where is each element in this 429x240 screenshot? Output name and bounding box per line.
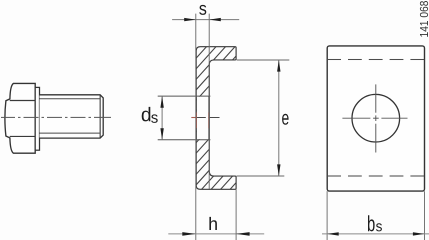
dimension s: right arrow [209,18,221,21]
hole centerline [191,117,205,119]
plate outline [327,46,424,191]
dimension b_s: dimension line [322,233,429,235]
dimension h: left arrow (outside) [182,232,196,236]
red center mark vertical left [195,112,197,128]
dimension e: dimension line [278,60,280,176]
thread minor diameter line (top) [40,98,101,100]
threaded hole bottom edge + extension [158,139,211,141]
hole band (unhatched) [197,97,209,140]
dimension e: extension lines [237,59,290,61]
washer face collar [35,87,39,150]
hatching [40,30,383,200]
dimension b_s: right arrow [413,232,425,235]
label d_s [142,107,151,122]
dimension h: right extension line [235,189,237,240]
dimension h: dimension line [168,233,264,235]
head facet line (upper) [10,100,36,102]
dimension b_s: left arrow [327,232,339,235]
head facet line (lower) [10,135,36,137]
dimension s: left arrow [184,18,196,21]
dimension d_s: dimension line with arrows [161,96,163,140]
hole circle [352,94,400,142]
shank chamfer edge line [99,95,101,137]
section outline [196,47,236,190]
threaded shank outline [40,95,104,138]
threaded hole top edge + extension [158,95,211,97]
dimension s: dimension line [172,19,239,21]
centerline (bolt axis) [1,116,111,118]
bar right edge through hole band [208,96,210,140]
hole horizontal centerline [342,117,407,119]
label e [282,114,289,125]
red center mark vertical right [208,112,210,128]
thread minor diameter line (bottom) [40,132,101,134]
bolt head (hex) outline [5,83,35,153]
dimension s: extension lines [195,14,197,240]
label s [199,5,206,15]
hidden line (top flange underside) [327,59,424,61]
label h [209,217,217,230]
label b_s [368,215,375,231]
bar left edge through hole band [195,96,197,140]
hidden line (bottom flange top) [327,175,424,177]
red center mark horizontal [191,117,196,119]
dimension b_s: extension lines [326,191,328,240]
dimension h: right arrow (outside) [236,232,250,236]
part number 141 068 (vertical) [420,1,428,37]
hole vertical centerline [375,84,377,152]
